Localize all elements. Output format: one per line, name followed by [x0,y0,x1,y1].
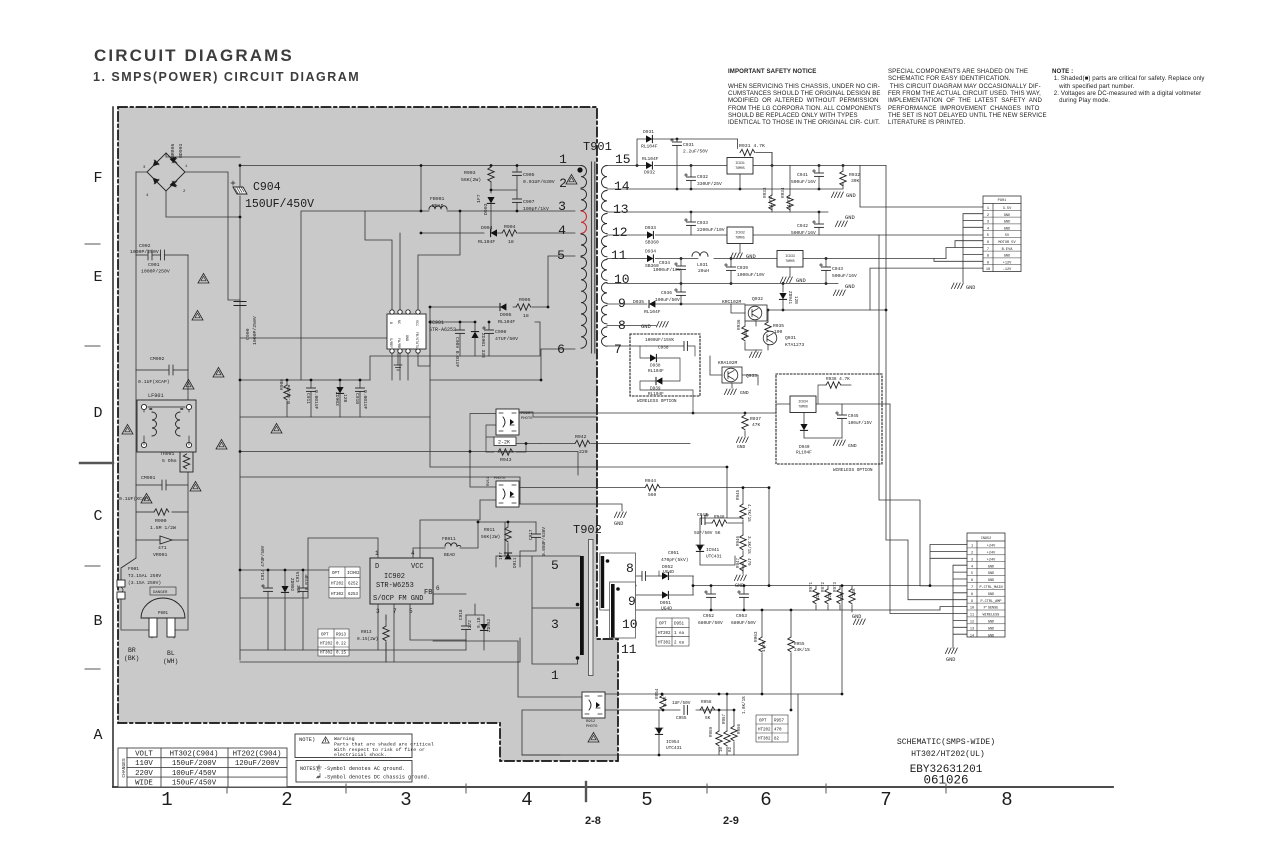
svg-text:1: 1 [987,207,989,211]
svg-text:FB911: FB911 [442,536,456,542]
svg-text:4: 4 [521,789,532,811]
page numbers [585,815,601,827]
svg-text:-Symbol denotes AC ground.: -Symbol denotes AC ground. [324,766,405,772]
svg-text:3.5V: 3.5V [1003,207,1012,211]
svg-text:150uF/450V: 150uF/450V [172,780,217,788]
regulator IC931 [727,158,753,175]
fuse F901 [117,558,136,599]
svg-text:C955: C955 [676,716,687,721]
T901 secondary winding chains [601,166,607,347]
svg-text:2: 2 [559,176,567,191]
svg-text:20uH: 20uH [698,268,709,274]
svg-text:3: 3 [971,558,973,562]
svg-text:R956: R956 [738,723,742,734]
svg-text:HT302: HT302 [658,641,671,645]
resistors R959 R957 R956 [719,694,734,755]
svg-text:D911: D911 [513,557,518,568]
transistor Q932 KRC102M [745,305,767,321]
svg-text:C947: C947 [697,513,708,518]
wire rail pin15 [607,165,886,167]
svg-text:C942: C942 [797,223,808,229]
svg-text:1.5M 1/2W: 1.5M 1/2W [150,525,176,531]
svg-text:-12V: -12V [1003,268,1012,272]
svg-text:4: 4 [971,565,973,569]
diode D932 [646,162,652,169]
resistor R937 [742,415,748,430]
svg-text:ZD903: ZD903 [334,392,340,406]
svg-text:R945: R945 [737,489,741,500]
svg-text:GND: GND [1004,214,1010,218]
capacitor C933 [685,219,696,226]
wire T902 primary connections [505,522,580,664]
resistor R954 [660,695,666,710]
svg-text:RL104F: RL104F [642,156,659,162]
shaded region dash-dot border [118,107,618,761]
svg-text:R937: R937 [750,416,761,422]
diode D911 [504,553,511,559]
svg-text:STR-W6253: STR-W6253 [376,582,414,590]
svg-text:10: 10 [720,746,724,752]
capacitor C939 [725,264,736,271]
capacitor C945 [836,412,847,419]
svg-text:CM902: CM902 [150,356,165,362]
svg-text:18: 18 [523,313,529,319]
svg-text:33B: 33B [295,585,300,593]
svg-text:0.05UF/630V: 0.05UF/630V [542,527,547,556]
svg-text:C: C [93,508,102,525]
svg-text:560: 560 [648,492,657,498]
svg-text:HT302(C904): HT302(C904) [170,751,219,759]
svg-text:BEAD: BEAD [432,203,444,209]
svg-text:10: 10 [614,272,630,287]
wire IC902 vcc + FB911 [413,522,478,558]
ground opto [614,512,626,518]
T902 secondary winding bars [601,556,604,608]
transistor Q931 [763,331,777,345]
svg-text:GND: GND [845,215,855,221]
svg-text:D933: D933 [645,225,656,231]
svg-text:14: 14 [970,634,974,638]
wire bus to P901 [860,166,983,311]
AC ground symbol [394,353,402,370]
svg-text:VOLT: VOLT [135,751,153,759]
svg-text:B: B [93,613,102,630]
ground CN952 [945,648,957,654]
svg-text:2: 2 [281,789,292,811]
svg-text:HT302/HT202(UL): HT302/HT202(UL) [911,749,985,759]
photocoupler PC902 [496,409,519,435]
svg-text:electricial shock.: electricial shock. [334,752,387,758]
svg-text:R913: R913 [336,634,347,638]
svg-text:T901: T901 [583,140,612,154]
svg-text:470pF(5kV): 470pF(5kV) [661,557,689,563]
svg-text:F901: F901 [128,566,139,572]
wire AC left rail [121,172,152,638]
resistor R943 2-2K [494,437,516,446]
svg-text:82: 82 [729,746,733,752]
svg-text:LF901: LF901 [148,393,164,399]
svg-text:GND: GND [988,627,994,631]
svg-text:8: 8 [971,593,973,597]
svg-text:OPT: OPT [321,634,329,638]
svg-text:GND: GND [988,621,994,625]
svg-text:-Symbol denotes DC chassis gro: -Symbol denotes DC chassis ground. [324,775,430,781]
svg-text:GND: GND [846,193,856,199]
svg-text:0.001UF: 0.001UF [313,390,319,410]
svg-text:HT302: HT302 [758,738,771,742]
svg-text:R913: R913 [361,630,372,635]
svg-text:13: 13 [970,627,974,631]
grid row letters [93,170,102,744]
svg-text:SB360: SB360 [645,240,659,246]
transformer T901 core [591,162,593,353]
transistor Q933 KRA102M [722,367,742,383]
svg-text:C909 0.01UF: C909 0.01UF [454,337,460,368]
svg-text:NOTES): NOTES) [300,766,319,772]
svg-text:6252: 6252 [348,583,359,587]
resistor R931 [740,149,755,155]
capacitor C941 [813,170,824,177]
svg-text:R903: R903 [464,170,476,176]
svg-text:R955: R955 [794,642,805,647]
svg-text:5: 5 [551,558,559,573]
svg-text:GND: GND [740,390,749,396]
svg-text:100uF/15V: 100uF/15V [848,421,872,426]
wireless option box B [776,374,882,464]
T901 primary winding pins 5-6 [581,257,587,348]
svg-text:(WH): (WH) [163,658,178,665]
svg-text:0.001UF: 0.001UF [362,390,368,410]
svg-text:110V: 110V [135,760,153,768]
svg-text:FB/STATUS: FB/STATUS [414,332,419,350]
ground Q931 [755,350,757,352]
svg-text:DANGER: DANGER [153,591,168,595]
svg-text:120uF/200V: 120uF/200V [235,760,280,768]
svg-text:BEAD: BEAD [444,552,455,558]
svg-text:78M06: 78M06 [798,405,808,409]
svg-text:R905: R905 [519,297,531,303]
capacitor C918 [462,626,471,629]
wire opto R951 connections [420,452,645,559]
wire IC901 pins up [365,211,460,310]
OPT table D951 [656,618,689,646]
svg-text:061026: 061026 [923,774,968,788]
svg-text:3: 3 [551,617,559,632]
wire primary return rails [240,452,578,505]
svg-text:ZD901 33B: ZD901 33B [480,333,486,358]
svg-text:5: 5 [971,572,973,576]
svg-text:KRC102M: KRC102M [722,299,742,305]
resistor R913 [383,626,389,641]
svg-text:500uF/16V: 500uF/16V [791,179,816,185]
svg-text:4.7K: 4.7K [769,196,774,207]
OPT table R957 [756,715,788,742]
svg-text:2-2K: 2-2K [498,440,510,446]
svg-text:R934: R934 [781,187,786,198]
svg-text:BR805: BR805 [170,143,176,158]
svg-text:272: 272 [468,620,473,628]
svg-text:R932: R932 [849,172,860,178]
svg-text:C901: C901 [148,262,160,268]
svg-text:22K: 22K [817,592,821,600]
svg-text:4.7K/1%: 4.7K/1% [746,504,751,522]
svg-text:R942: R942 [575,434,587,440]
svg-text:HT202(C904): HT202(C904) [233,751,282,759]
capacitor C907 [513,199,522,202]
svg-text:D939: D939 [650,387,661,392]
ground IC941 [742,572,744,574]
wire sense line [430,307,743,572]
svg-text:R972: R972 [822,581,826,592]
regulator IC954 UTC431 [655,728,662,734]
svg-text:11: 11 [970,614,974,618]
svg-text:C907: C907 [523,199,535,205]
capacitor C947 [702,514,709,525]
svg-text:78M05: 78M05 [785,259,795,263]
svg-text:1000P/250V: 1000P/250V [252,316,258,345]
svg-text:8: 8 [626,561,634,576]
T901 polarity dot pin1 [577,167,582,172]
svg-text:(3.15A 250V): (3.15A 250V) [128,580,161,586]
svg-text:GND: GND [988,579,994,583]
svg-text:2: 2 [987,214,989,218]
svg-text:MOTOR 5V: MOTOR 5V [998,241,1016,245]
safety notice column 1 [728,68,881,127]
svg-text:RL104F: RL104F [478,239,495,245]
svg-text:471: 471 [158,545,167,551]
wire rail pin12 [607,234,983,236]
svg-text:RL104F: RL104F [498,319,515,325]
capacitor C931 [671,139,682,146]
svg-text:RL104F: RL104F [796,451,812,456]
svg-text:R948: R948 [714,515,725,520]
svg-text:7: 7 [880,789,891,811]
svg-text:A: A [93,727,102,744]
svg-text:IC934: IC934 [798,400,808,404]
capacitor C915 [299,588,308,591]
svg-text:GND: GND [404,335,408,341]
T901 primary winding pins 2-3 [581,189,586,211]
svg-text:1F7: 1F7 [476,194,482,203]
svg-text:1F7: 1F7 [499,552,504,560]
warning note box [295,734,434,758]
svg-text:C902: C902 [139,243,151,249]
svg-text:2200uF/10V: 2200uF/10V [697,227,725,233]
svg-text:S/REF: S/REF [388,338,393,348]
svg-text:C931: C931 [683,142,694,148]
svg-text:R951: R951 [487,476,491,486]
svg-text:6: 6 [760,789,771,811]
svg-text:R904: R904 [504,224,516,230]
capacitor C932 [685,174,696,181]
svg-text:R943: R943 [500,457,512,463]
svg-text:GND: GND [746,254,756,260]
svg-text:330UF/25V: 330UF/25V [697,181,722,187]
diode D935 [649,300,655,307]
svg-text:Q931: Q931 [785,335,796,341]
capacitor C936 [675,289,686,296]
svg-text:47K: 47K [752,422,761,428]
wire rail pin14 ground return [607,166,843,190]
wireless option box A [630,334,700,396]
zener ZD952 [480,624,487,630]
regulator IC934 [790,396,816,413]
capacitor C952 [705,591,716,598]
svg-text:BR: BR [128,647,136,654]
svg-text:+12V: +12V [1003,261,1012,265]
IC902 [370,558,433,604]
svg-text:PHOTO: PHOTO [521,417,533,421]
svg-text:D934: D934 [645,249,656,255]
svg-text:UG4D: UG4D [663,569,674,575]
svg-text:GND: GND [988,593,994,597]
capacitor C905 [513,172,522,175]
svg-text:R957: R957 [723,713,727,724]
svg-text:12B: 12B [342,394,348,403]
svg-text:FW/RB: FW/RB [396,338,401,348]
wire R952 left [433,641,582,755]
svg-text:D903: D903 [483,203,489,215]
svg-text:4: 4 [558,223,566,238]
svg-text:10: 10 [970,607,974,611]
svg-text:C932: C932 [697,174,708,180]
svg-text:560: 560 [744,330,749,338]
svg-text:5K: 5K [705,716,711,721]
svg-text:11: 11 [611,248,627,263]
svg-text:18: 18 [508,239,514,245]
resistor R936 [742,326,748,341]
svg-text:GND: GND [614,521,623,527]
svg-text:Q933: Q933 [746,373,757,379]
svg-text:FB901: FB901 [430,196,445,202]
svg-text:1: 1 [161,789,172,811]
svg-text:C945: C945 [848,414,859,419]
resistor R900 [136,509,188,515]
svg-text:GND: GND [845,284,855,290]
svg-text:R958: R958 [701,700,712,705]
svg-text:56K(2W): 56K(2W) [481,534,500,540]
ground IC933 [780,277,792,283]
diode D904 + resistor R904 [421,232,575,234]
svg-text:0.22: 0.22 [336,643,347,647]
svg-text:6: 6 [971,579,973,583]
resistor R906 [284,385,290,400]
ground P901 [951,283,963,289]
grid column numbers [161,789,1012,811]
svg-text:6: 6 [987,241,989,245]
warning triangles (left area) [198,273,209,283]
svg-text:R973: R973 [834,581,838,592]
resistor R963 [759,637,765,652]
svg-text:1 ea: 1 ea [674,632,685,636]
svg-text:+24V: +24V [987,545,996,549]
svg-text:GND: GND [988,565,994,569]
svg-text:4: 4 [987,227,989,231]
svg-text:C936: C936 [661,290,672,296]
svg-text:C952: C952 [703,613,714,619]
svg-text:R911: R911 [484,527,495,533]
svg-text:IC941: IC941 [706,548,720,553]
svg-text:470: 470 [774,729,782,733]
svg-text:100uF/50V: 100uF/50V [655,297,680,303]
diode D938 [650,354,656,361]
svg-text:11: 11 [621,642,637,657]
svg-text:E: E [93,269,102,286]
svg-text:7: 7 [614,342,622,357]
svg-text:C914 47UF/50V: C914 47UF/50V [261,545,266,580]
svg-text:T3.15AL 250V: T3.15AL 250V [128,573,161,579]
svg-text:3.3K/1%: 3.3K/1% [746,536,751,554]
svg-text:5: 5 [641,789,652,811]
svg-text:UTC431: UTC431 [666,746,682,751]
svg-text:13: 13 [613,202,629,217]
svg-text:0.47/2W: 0.47/2W [286,384,292,404]
capacitor C911 [307,388,316,391]
svg-text:C953: C953 [736,613,747,619]
svg-text:4.7K: 4.7K [787,196,792,207]
svg-text:GND: GND [1004,221,1010,225]
frame left border line [112,107,114,787]
svg-text:KTA1273: KTA1273 [785,342,805,348]
wire Q932 connections [731,304,886,326]
svg-text:HT202: HT202 [758,729,771,733]
svg-text:R906: R906 [279,379,285,390]
svg-text:D931: D931 [643,129,654,135]
ferrite bead FB901 [429,206,447,209]
wire control line [519,412,776,414]
svg-text:10: 10 [622,617,638,632]
svg-text:2.2uF/50V: 2.2uF/50V [683,149,708,155]
svg-text:F: F [93,170,102,187]
svg-text:R938 4.7K: R938 4.7K [826,377,850,382]
svg-text:GND: GND [852,614,861,620]
connector P901 [983,196,1021,272]
shunt regulator IC941 [696,545,703,551]
svg-text:5: 5 [557,248,565,263]
svg-text:1: 1 [559,152,567,167]
resistor R945 [740,504,746,519]
svg-text:9: 9 [971,600,973,604]
wire IC902 bottom pins [378,594,466,662]
svg-text:IC902: IC902 [347,572,360,576]
svg-text:ZD941: ZD941 [787,291,792,305]
svg-text:T902: T902 [573,523,602,537]
svg-text:+24V: +24V [987,552,996,556]
svg-text:56K(2W): 56K(2W) [461,177,481,183]
svg-text:HT302: HT302 [331,593,344,597]
svg-text:B.EVA: B.EVA [1002,248,1014,252]
capacitor C955 + resistor R958 [684,706,687,715]
svg-text:1000UF/15VK: 1000UF/15VK [645,338,674,343]
T901 primary pin numbers [557,152,567,357]
capacitor C917 [532,534,541,537]
safety notice column 2 [888,68,1047,127]
svg-text:GND: GND [641,324,651,330]
capacitor C942 [813,221,824,228]
svg-text:(BK): (BK) [124,655,139,662]
svg-text:P-CTRL_AMP: P-CTRL_AMP [980,600,1001,604]
svg-text:R946: R946 [737,535,741,546]
diode D933 [647,231,653,238]
svg-text:1000P/250V: 1000P/250V [141,269,170,275]
svg-text:1000uF/10V: 1000uF/10V [737,272,765,278]
wire rail pin9 [607,284,745,305]
T902 pin numbers [551,558,638,683]
svg-text:C917: C917 [529,529,534,540]
svg-text:R954: R954 [655,688,660,699]
svg-text:2 ea: 2 ea [674,641,685,645]
line filter LF901 [137,400,196,452]
